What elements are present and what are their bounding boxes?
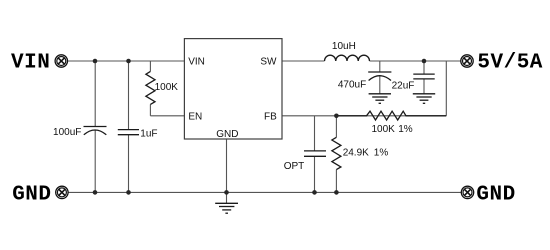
svg-text:10uH: 10uH	[332, 41, 356, 52]
svg-text:1uF: 1uF	[140, 129, 157, 140]
svg-text:100K1%: 100K1%	[372, 124, 413, 135]
svg-text:100uF: 100uF	[53, 127, 81, 138]
svg-text:24.9K1%: 24.9K1%	[343, 148, 389, 159]
svg-text:OPT: OPT	[284, 161, 305, 172]
svg-text:GND: GND	[476, 184, 515, 207]
svg-text:100K: 100K	[155, 82, 179, 93]
svg-text:EN: EN	[188, 112, 202, 123]
svg-text:SW: SW	[260, 57, 277, 68]
svg-text:VIN: VIN	[11, 51, 50, 74]
svg-text:470uF: 470uF	[338, 80, 366, 91]
svg-text:FB: FB	[264, 112, 277, 123]
svg-text:5V/5A: 5V/5A	[477, 51, 543, 74]
svg-text:GND: GND	[12, 184, 51, 207]
svg-text:22uF: 22uF	[392, 80, 415, 91]
svg-text:VIN: VIN	[188, 57, 205, 68]
svg-text:GND: GND	[216, 129, 238, 140]
